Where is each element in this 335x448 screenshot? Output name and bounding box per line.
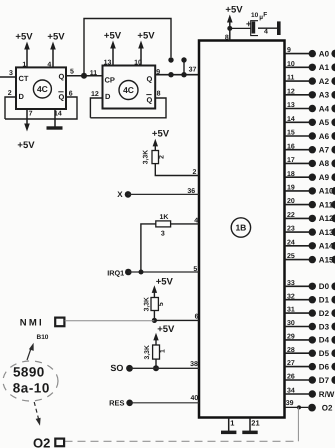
svg-text:D2: D2 [319, 309, 330, 318]
svg-text:B10: B10 [37, 334, 49, 341]
pin 29 / D4 [285, 334, 335, 345]
svg-text:9: 9 [156, 69, 160, 76]
svg-text:2: 2 [193, 169, 197, 176]
svg-text:1B: 1B [235, 223, 246, 233]
svg-text:22: 22 [287, 212, 295, 219]
svg-text:5890: 5890 [13, 365, 45, 380]
wire R3 to IC1B pin 4 [171, 218, 199, 225]
FF2 pin 8 Q-bar wire and feedback loop to D [90, 90, 166, 117]
svg-text:40: 40 [191, 395, 199, 402]
svg-text:RES: RES [109, 398, 124, 407]
svg-text:14: 14 [54, 110, 62, 117]
svg-text:1K: 1K [160, 214, 169, 221]
svg-text:17: 17 [287, 157, 295, 164]
pin 15 / A6 [285, 130, 335, 141]
svg-text:23: 23 [287, 226, 295, 233]
pin 28 / D5 [285, 347, 335, 358]
svg-text:3,3K: 3,3K [143, 150, 150, 164]
IC1B address pins A0-A15 [285, 47, 335, 264]
note oval 5890 / 8a-10 [3, 361, 58, 401]
svg-text:A2: A2 [319, 77, 330, 86]
IC1B pin 39 O2 output [285, 400, 309, 407]
svg-text:7: 7 [29, 110, 33, 117]
svg-text:4: 4 [264, 29, 268, 36]
svg-text:11: 11 [287, 75, 295, 82]
FF1 pin 14 wire to ground [47, 109, 63, 130]
node O2 terminal dot [308, 404, 316, 412]
svg-text:4C: 4C [123, 85, 134, 95]
pin 9 / A0 [285, 47, 335, 58]
svg-text:12: 12 [287, 88, 295, 95]
svg-text:A9: A9 [319, 173, 330, 182]
node O2 tap junction [297, 405, 301, 409]
svg-text:A0: A0 [319, 49, 330, 58]
pin 30 / D3 [285, 320, 335, 331]
svg-text:D5: D5 [319, 349, 330, 358]
svg-text:+5V: +5V [152, 128, 170, 139]
FF2 pin 12 D input wire (loop to Q-bar) [90, 91, 102, 118]
svg-text:2: 2 [158, 155, 165, 159]
svg-text:13: 13 [104, 59, 112, 66]
NMI input terminal [20, 317, 65, 340]
FF2 pin 13 wire to +5V [104, 30, 122, 66]
FF1 pin 3 CT input wire [0, 70, 16, 77]
FF1 pin 5 Q output wire to FF2 CP [66, 69, 103, 76]
IC1B pin 21 wire to ground [242, 418, 259, 435]
svg-text:D: D [19, 92, 25, 101]
svg-text:33: 33 [287, 280, 295, 287]
svg-text:4: 4 [47, 61, 51, 68]
svg-text:12: 12 [91, 91, 99, 98]
svg-text:36: 36 [187, 188, 195, 195]
wire R2 to IC1B pin 2 [155, 164, 199, 176]
svg-text:A5: A5 [319, 118, 330, 127]
pin 20 / A11 [285, 198, 335, 209]
svg-text:21: 21 [251, 419, 259, 428]
resistor R3 1K (pin 4 to IRQ line) [156, 214, 171, 237]
FF1 pin 7 wire to +5V (down arrow) [17, 109, 35, 151]
svg-text:1: 1 [230, 419, 234, 428]
svg-text:26: 26 [287, 374, 295, 381]
svg-text:28: 28 [287, 347, 295, 354]
svg-text:1: 1 [159, 349, 166, 353]
svg-text:10: 10 [134, 59, 142, 66]
resistor R1 3,3K pull-up to +5V (SO) [144, 324, 175, 368]
pin 27 / D6 [285, 360, 335, 371]
svg-text:D: D [105, 92, 111, 101]
svg-text:Q: Q [147, 75, 153, 84]
node: open link dot (top of down-wire) [168, 57, 173, 62]
svg-text:32: 32 [287, 293, 295, 300]
svg-text:20: 20 [287, 198, 295, 205]
wire RES to IC1B pin 40 [130, 395, 199, 403]
node Q1 junction [81, 73, 87, 79]
svg-text:3: 3 [161, 230, 165, 237]
wire capacitor to ground [258, 27, 277, 29]
svg-text:14: 14 [287, 116, 295, 123]
wire X to IC1B pin 36 [128, 188, 199, 195]
FF2 pin 9 Q output wire to IC1B pin 37 [155, 67, 199, 77]
svg-text:5: 5 [70, 69, 74, 76]
IC1B pin 34 R/W output [285, 388, 335, 399]
svg-text:37: 37 [189, 67, 197, 74]
pin 26 / D7 [285, 374, 335, 385]
pin 19 / A10 [285, 185, 335, 196]
wire O2 dashed return line [65, 440, 299, 442]
svg-text:39: 39 [286, 400, 294, 407]
svg-text:IRQ1: IRQ1 [107, 268, 124, 277]
IC1B pin 1 wire to ground [221, 418, 236, 435]
svg-text:Q: Q [59, 93, 65, 102]
svg-text:18: 18 [287, 171, 295, 178]
svg-text:8a-10: 8a-10 [13, 380, 50, 395]
wire NMI terminal to junction (thin) [65, 320, 155, 322]
wire NMI junction to IC1B pin 6 [154, 314, 199, 321]
svg-text:A3: A3 [319, 91, 330, 100]
node IRQ junction [139, 270, 144, 275]
svg-text:6: 6 [195, 314, 199, 321]
pin 31 / D2 [285, 307, 335, 318]
pin 25 / A15 [285, 253, 335, 264]
svg-text:27: 27 [287, 360, 295, 367]
resistor R2 3,3K pull-up to +5V (pin 2) [143, 128, 170, 164]
svg-text:1: 1 [22, 61, 26, 68]
pin 32 / D1 [285, 293, 335, 304]
pin 10 / A1 [285, 61, 335, 72]
pin 14 / A5 [285, 116, 335, 127]
IC 1B (CPU) body [199, 41, 285, 418]
O2 input terminal [33, 435, 64, 448]
svg-text:A8: A8 [319, 159, 330, 168]
svg-text:+5V: +5V [15, 32, 33, 43]
svg-text:D4: D4 [319, 336, 330, 345]
svg-text:X: X [117, 190, 123, 199]
svg-text:NMI: NMI [20, 317, 44, 328]
wire SO to IC1B pin 38 [130, 361, 200, 368]
svg-text:6: 6 [69, 91, 73, 98]
svg-text:D7: D7 [319, 376, 330, 385]
svg-text:5: 5 [158, 302, 165, 306]
wire IRQ1 to IC1B pin 5 [128, 266, 199, 273]
node: +5V / capacitor junction [227, 26, 232, 31]
svg-text:O2: O2 [322, 404, 333, 413]
svg-text:11: 11 [90, 70, 98, 77]
svg-text:O2: O2 [33, 435, 50, 448]
svg-text:+5V: +5V [225, 5, 243, 16]
svg-text:19: 19 [287, 185, 295, 192]
svg-text:A4: A4 [319, 104, 330, 113]
resistor R5 3,3K pull-up to +5V (NMI) [143, 276, 173, 320]
IC1B pin 8 wire to +5V [225, 5, 243, 42]
svg-text:15: 15 [287, 130, 295, 137]
wire junction to capacitor C4 [230, 27, 251, 29]
svg-text:10: 10 [251, 12, 259, 19]
ground bar (capacitor) [277, 21, 281, 35]
svg-text:D1: D1 [319, 296, 330, 305]
svg-text:Q: Q [59, 72, 65, 81]
svg-text:4C: 4C [37, 84, 48, 94]
note arrow down-right [34, 402, 40, 426]
svg-text:16: 16 [287, 143, 295, 150]
svg-text:3: 3 [9, 70, 13, 77]
svg-text:+5V: +5V [47, 32, 65, 43]
wire O2 tap down [297, 407, 299, 441]
FF1 pin 1 wire to +5V [15, 32, 33, 69]
svg-text:A7: A7 [319, 146, 330, 155]
flip-flop 4C (FF1) body [16, 67, 66, 109]
svg-text:34: 34 [287, 388, 295, 395]
svg-text:38: 38 [190, 361, 198, 368]
svg-text:8: 8 [225, 35, 229, 42]
svg-text:30: 30 [287, 320, 295, 327]
svg-text:R/W: R/W [319, 390, 335, 399]
svg-text:29: 29 [287, 334, 295, 341]
note arrow up-right [27, 343, 34, 360]
pin 13 / A4 [285, 102, 335, 113]
pin 18 / A9 [285, 171, 335, 182]
svg-text:A1: A1 [319, 63, 330, 72]
svg-text:+5V: +5V [104, 30, 122, 41]
FF2 pin 10 wire to +5V [134, 30, 155, 66]
node X input [117, 190, 131, 199]
svg-text:A6: A6 [319, 132, 330, 141]
capacitor C4 10uF electrolytic [246, 12, 268, 36]
pin 23 / A13 [285, 226, 335, 237]
pin 16 / A7 [285, 143, 335, 154]
svg-text:Q: Q [147, 96, 153, 105]
svg-text:9: 9 [287, 47, 291, 54]
svg-text:31: 31 [287, 307, 295, 314]
svg-text:25: 25 [287, 253, 295, 260]
node NMI junction [152, 318, 157, 323]
IC1B data pins D0-D7 [285, 280, 335, 385]
FF1 pin 6 Q-bar wire and feedback loop to D [5, 91, 77, 119]
FF1 pin 4 wire to +5V [47, 32, 65, 69]
svg-text:F: F [263, 12, 267, 19]
pin 11 / A2 [285, 75, 335, 86]
svg-text:3,3K: 3,3K [144, 345, 151, 359]
svg-text:10: 10 [287, 61, 295, 68]
svg-text:+5V: +5V [156, 276, 174, 287]
pin 22 / A12 [285, 212, 335, 223]
svg-text:SO: SO [110, 363, 123, 373]
pin 12 / A3 [285, 88, 335, 99]
svg-text:24: 24 [287, 239, 295, 246]
node: open link dot (on pin37 wire) [168, 72, 173, 77]
node SO junction [153, 365, 159, 371]
svg-text:D6: D6 [319, 362, 330, 371]
svg-text:+5V: +5V [17, 140, 35, 151]
flip-flop 4C (FF2) body [103, 66, 156, 109]
pin 24 / A14 [285, 239, 335, 250]
node RES input [109, 398, 133, 407]
svg-text:+5V: +5V [137, 30, 155, 41]
svg-text:2: 2 [8, 90, 12, 97]
svg-text:D3: D3 [319, 322, 330, 331]
svg-text:3,3K: 3,3K [143, 297, 150, 311]
svg-text:+5V: +5V [157, 324, 175, 335]
svg-text:A11: A11 [319, 200, 334, 209]
svg-text:8: 8 [157, 90, 161, 97]
svg-text:13: 13 [287, 102, 295, 109]
wire R3 left side down to IRQ junction [141, 224, 156, 272]
node SO input [110, 363, 132, 373]
svg-text:CT: CT [19, 74, 29, 83]
wire: Q1 branch up and over to pin 37 link [84, 19, 171, 76]
node: closed link stub [181, 57, 186, 77]
svg-text:5: 5 [193, 266, 197, 273]
pin 33 / D0 [285, 280, 335, 291]
FF1 pin 2 D input wire (loop to Q-bar) [5, 90, 16, 119]
svg-text:D0: D0 [319, 282, 330, 291]
pin 17 / A8 [285, 157, 335, 168]
node IRQ1 input [107, 268, 131, 277]
svg-text:CP: CP [105, 76, 115, 85]
svg-text:4: 4 [194, 218, 198, 225]
